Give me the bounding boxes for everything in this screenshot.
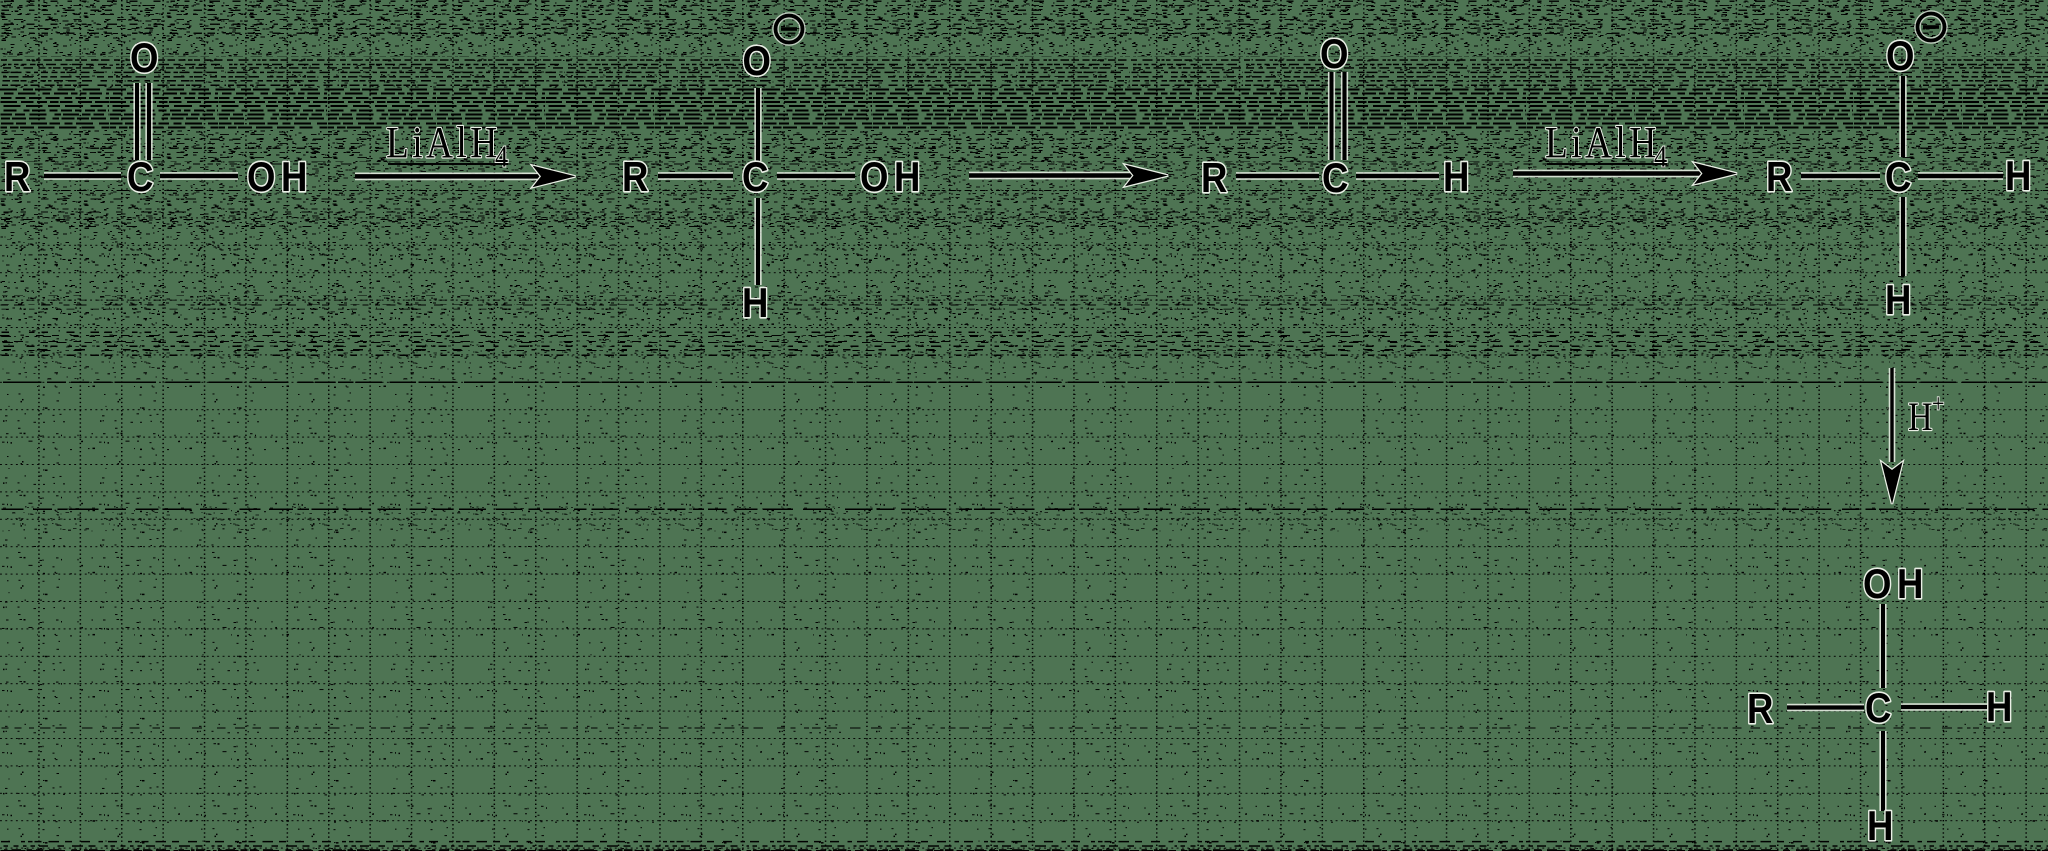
molecule 3: aldehyde R-CHO — atom R xyxy=(1201,155,1233,202)
svg-text:O: O xyxy=(130,35,164,82)
svg-text:O: O xyxy=(1886,33,1920,80)
svg-text:H: H xyxy=(1885,277,1917,324)
svg-text:H: H xyxy=(1908,396,1933,440)
atom C (molecule 1) xyxy=(127,154,159,201)
underline under LiAlH4 (arrow 1) xyxy=(388,163,508,165)
atom OH (molecule 2) xyxy=(860,154,926,201)
bond R–C (molecule 1) xyxy=(44,172,121,180)
atom OH hydroxyl (molecule 1) xyxy=(247,154,313,201)
atom O carbonyl (molecule 1) xyxy=(130,35,164,82)
svg-text:R: R xyxy=(622,154,654,201)
atom O minus (molecule 4) xyxy=(1886,33,1920,80)
svg-text:H: H xyxy=(742,280,774,327)
label LiAlH4 (arrow 3) xyxy=(1545,118,1667,174)
atom R (molecule 5) xyxy=(1747,686,1779,733)
bond R–C (molecule 5) xyxy=(1787,704,1864,711)
bond C–H right (molecule 5) xyxy=(1901,703,1988,710)
bond O–C vertical (molecule 5) xyxy=(1879,604,1886,688)
bond C–H vertical (molecule 2) xyxy=(754,198,761,285)
bond C–H vertical (molecule 4) xyxy=(1899,197,1906,276)
reaction arrow 3 head xyxy=(1694,163,1737,185)
svg-text:LiAlH: LiAlH xyxy=(1545,118,1660,166)
svg-text:O: O xyxy=(742,38,776,85)
atom H bottom (molecule 2) xyxy=(742,280,774,327)
atom H right (molecule 4) xyxy=(2005,153,2037,200)
svg-text:OH: OH xyxy=(247,154,313,201)
bond O–C vertical (molecule 2) xyxy=(754,88,761,161)
reaction arrow 4 (downward H+ workup) shaft xyxy=(1889,368,1896,462)
svg-text:H: H xyxy=(2005,153,2037,200)
svg-text:R: R xyxy=(1747,686,1779,733)
bond C–OH (molecule 1) xyxy=(160,172,238,180)
svg-text:H: H xyxy=(1986,684,2018,731)
svg-text:C: C xyxy=(1885,154,1917,201)
atom H bottom (molecule 5) xyxy=(1867,803,1899,850)
molecule 2: tetrahedral intermediate — negative charge symbol xyxy=(776,16,803,43)
svg-text:4: 4 xyxy=(1654,140,1667,174)
label H+ (arrow 4) xyxy=(1908,390,1944,439)
atom C (molecule 3) xyxy=(1322,155,1354,202)
atom R (molecule 2) xyxy=(622,154,654,201)
bond C–H vertical (molecule 5) xyxy=(1879,731,1886,811)
svg-text:R: R xyxy=(1201,155,1233,202)
reaction arrow 1 shaft xyxy=(355,173,545,181)
svg-text:C: C xyxy=(1322,155,1354,202)
bond R–C (molecule 2) xyxy=(658,172,733,180)
atom H aldehyde (molecule 3) xyxy=(1443,154,1475,201)
svg-text:C: C xyxy=(127,154,159,201)
svg-text:OH: OH xyxy=(1863,561,1929,608)
bond R–C (molecule 4) xyxy=(1801,172,1880,180)
atom R (molecule 4) xyxy=(1766,154,1798,201)
reaction arrow 2 shaft xyxy=(969,172,1138,180)
bond R–C (molecule 3) xyxy=(1236,172,1319,180)
molecule 1: carboxylic acid R-COOH — atom R xyxy=(4,154,36,201)
svg-text:+: + xyxy=(1932,390,1944,418)
label LiAlH4 (arrow 1) xyxy=(386,118,508,174)
reaction arrow 1 head xyxy=(533,166,576,188)
svg-text:O: O xyxy=(1320,31,1354,78)
bond O–C vertical (molecule 4) xyxy=(1899,76,1906,157)
reaction arrow 4 head xyxy=(1882,462,1903,504)
double bond C=O (molecule 3) xyxy=(1332,72,1345,160)
svg-text:C: C xyxy=(1865,685,1897,732)
svg-text:R: R xyxy=(1766,154,1798,201)
svg-text:H: H xyxy=(1867,803,1899,850)
svg-text:4: 4 xyxy=(495,140,508,174)
atom C central (molecule 5) xyxy=(1865,685,1897,732)
atom C central (molecule 4) xyxy=(1885,154,1917,201)
svg-text:H: H xyxy=(1443,154,1475,201)
reaction arrow 2 head xyxy=(1125,165,1168,187)
bond C–H (molecule 3) xyxy=(1356,172,1439,180)
bond C–H right (molecule 4) xyxy=(1918,172,2003,180)
underline under LiAlH4 (arrow 3) xyxy=(1547,163,1667,165)
svg-text:OH: OH xyxy=(860,154,926,201)
molecule 4: alkoxide — negative charge symbol xyxy=(1918,14,1945,41)
atom C central (molecule 2) xyxy=(742,154,774,201)
atom H bottom (molecule 4) xyxy=(1885,277,1917,324)
atom O carbonyl (molecule 3) xyxy=(1320,31,1354,78)
svg-text:R: R xyxy=(4,154,36,201)
double bond C=O (molecule 1) xyxy=(137,83,149,160)
bond C–OH (molecule 2) xyxy=(777,172,855,180)
atom O minus (molecule 2) xyxy=(742,38,776,85)
svg-text:LiAlH: LiAlH xyxy=(386,118,501,166)
svg-text:C: C xyxy=(742,154,774,201)
molecule 5: primary alcohol — atom OH top xyxy=(1863,561,1929,608)
reaction arrow 3 shaft xyxy=(1513,170,1707,178)
atom H right (molecule 5) xyxy=(1986,684,2018,731)
